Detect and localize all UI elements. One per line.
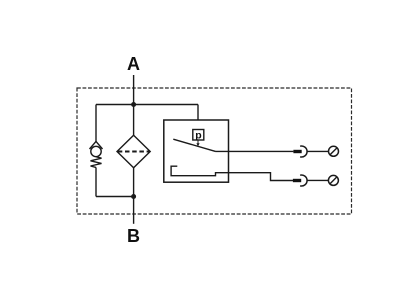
filter F1 body <box>117 135 150 168</box>
node junction top <box>131 102 136 107</box>
connector socket arc upper <box>300 146 307 157</box>
connector pin upper <box>293 150 301 153</box>
pressure switch S1 box <box>164 120 229 182</box>
screw terminal lower <box>328 175 338 185</box>
wire NO contact lower <box>171 166 293 180</box>
wire to terminal upper <box>307 150 329 152</box>
filter F1 element dashed <box>118 151 150 153</box>
actuator link from P to lever <box>197 140 199 144</box>
check valve V1 spring <box>91 157 102 168</box>
check valve V1 seat <box>90 141 103 149</box>
connector socket arc lower <box>300 175 307 186</box>
enclosure dashed boundary <box>77 88 352 214</box>
wire from A to filter <box>133 75 135 135</box>
wire common output upper <box>216 150 294 152</box>
svg-text:A: A <box>127 54 140 74</box>
svg-text:p: p <box>195 130 201 142</box>
screw terminal upper <box>329 146 339 156</box>
wire top branch <box>96 104 198 106</box>
connector pin lower <box>293 179 301 182</box>
node junction bottom <box>131 194 136 199</box>
wire to terminal lower <box>307 179 329 181</box>
pressure sensing element P box <box>193 130 204 141</box>
check valve V1 ball <box>91 146 101 156</box>
wire from filter to B <box>133 168 135 224</box>
wire bypass left upper <box>95 105 97 142</box>
switch lever contact <box>173 139 215 151</box>
wire bottom branch <box>96 196 134 198</box>
wire branch to pressure switch <box>197 105 199 121</box>
wire bypass left lower <box>95 167 97 196</box>
svg-text:B: B <box>127 226 140 246</box>
